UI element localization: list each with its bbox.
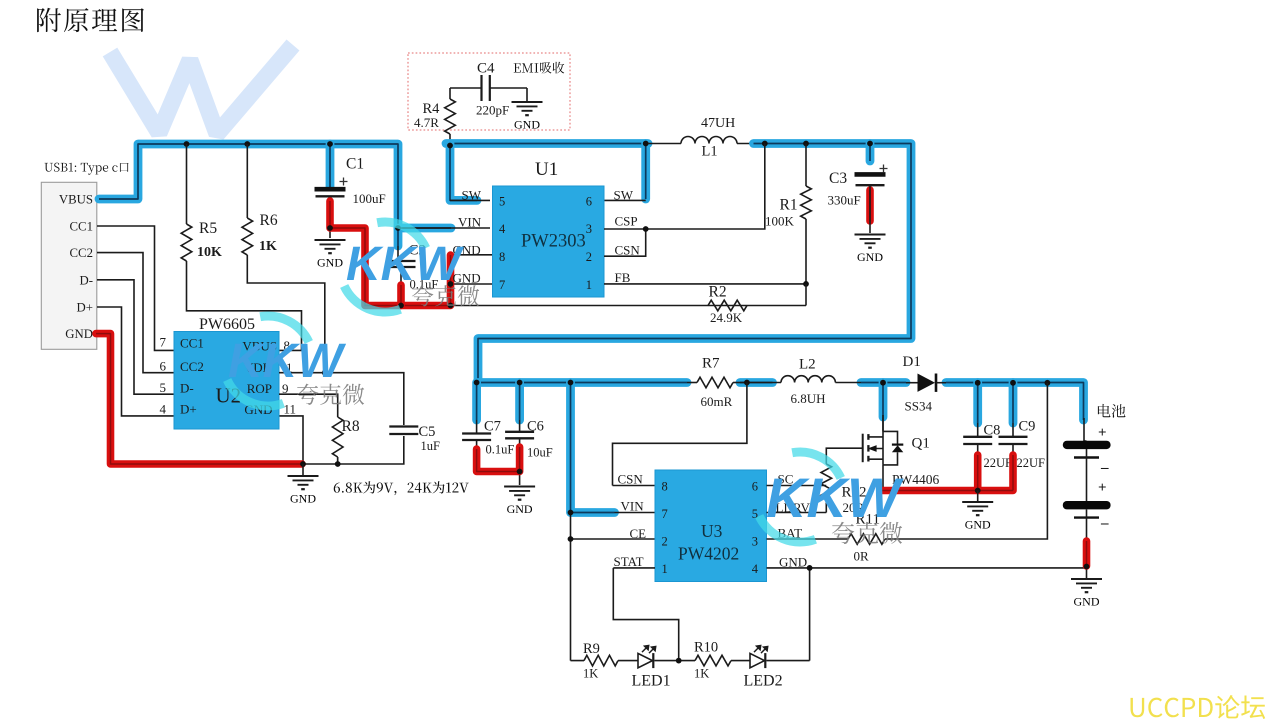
svg-text:0R: 0R	[854, 549, 870, 564]
wire C6 stub (blue)	[515, 383, 524, 421]
resistor R10	[695, 655, 731, 666]
junction dot FB	[803, 281, 809, 287]
svg-text:C7: C7	[484, 419, 501, 435]
watermark 夸克微 B	[297, 384, 364, 405]
junction dots U2 gnd rail	[300, 461, 306, 467]
svg-text:C5: C5	[419, 424, 436, 440]
EMI dashed box	[408, 53, 570, 130]
watermark crescent C	[759, 452, 841, 542]
capacitor C9	[999, 436, 1028, 438]
svg-text:60mR: 60mR	[701, 394, 733, 409]
wire SW pin6 drop (blue)	[641, 144, 650, 200]
svg-text:SW: SW	[462, 188, 482, 203]
wire ROP to R8	[279, 394, 338, 417]
chip U1 PW2303 box	[493, 186, 605, 297]
LED LED1	[638, 653, 653, 667]
capacitor C7	[462, 432, 491, 434]
svg-text:PW4202: PW4202	[678, 544, 739, 564]
svg-text:LED1: LED1	[632, 673, 671, 690]
svg-text:2: 2	[586, 250, 592, 264]
svg-text:22UF: 22UF	[984, 456, 1013, 470]
resistor R5	[186, 144, 188, 224]
wire U3 GND pin4 rail	[767, 540, 1087, 661]
svg-text:100K: 100K	[765, 214, 795, 229]
svg-text:CSN: CSN	[615, 243, 641, 258]
wire GND net under red (C1/C2/U1 grounds + R2 rail)	[330, 200, 806, 306]
svg-text:VIN: VIN	[621, 499, 645, 514]
capacitor C8	[963, 436, 992, 438]
watermark 夸克微 A	[412, 285, 479, 306]
svg-text:22UF: 22UF	[1017, 456, 1046, 470]
svg-text:R6: R6	[260, 212, 278, 229]
svg-text:7: 7	[662, 507, 668, 521]
svg-text:1K: 1K	[259, 239, 277, 254]
svg-text:C8: C8	[984, 423, 1001, 439]
svg-text:47UH: 47UH	[701, 116, 735, 131]
inductor L2	[747, 382, 781, 384]
wire SC stub	[767, 485, 827, 487]
wire SW pin5 drop (blue)	[450, 144, 477, 201]
svg-text:D-: D-	[180, 381, 194, 396]
svg-text:L2: L2	[799, 357, 816, 373]
svg-text:6.8UH: 6.8UH	[791, 391, 826, 406]
capacitor C2	[387, 260, 416, 262]
label 电池	[1098, 404, 1126, 418]
junction dots VOUT top	[762, 141, 768, 147]
svg-text:6: 6	[160, 359, 167, 374]
svg-text:GND: GND	[965, 517, 991, 531]
junction dot C8 gnd	[975, 488, 981, 494]
svg-text:C4: C4	[477, 61, 495, 77]
svg-text:D+: D+	[180, 402, 197, 417]
wire LED row	[571, 660, 810, 662]
junction dot C6 gnd	[517, 469, 523, 475]
watermark crescent A	[344, 222, 426, 312]
resistor R2	[805, 284, 807, 306]
red GND highlight at C1	[330, 201, 451, 306]
red highlight C7 C6 gnd	[477, 447, 520, 472]
svg-text:GND: GND	[857, 250, 883, 264]
wire VIN U3 path (blue)	[571, 383, 615, 513]
svg-text:STAT: STAT	[614, 554, 644, 569]
svg-text:C6: C6	[527, 419, 544, 435]
junction dots GND rail	[398, 303, 404, 309]
svg-text:1K: 1K	[583, 667, 598, 681]
svg-text:5: 5	[160, 380, 167, 395]
svg-text:R7: R7	[702, 356, 720, 372]
watermark giant W	[110, 45, 293, 134]
watermark 夸克微 C	[832, 522, 902, 544]
chip U3 PW4202 box	[655, 470, 767, 582]
junction dot R6-VDD	[322, 370, 328, 376]
wire Q1 gate	[826, 448, 862, 464]
svg-text:GND: GND	[514, 117, 540, 131]
svg-text:CC2: CC2	[70, 246, 93, 260]
junction dot STAT-LED	[676, 658, 682, 664]
resistor R6	[246, 144, 248, 218]
inductor L1	[648, 143, 681, 145]
capacitor C3	[855, 172, 886, 177]
watermark UCCPD论坛	[1131, 695, 1266, 719]
svg-text:C1: C1	[346, 156, 364, 173]
red highlight C3 gnd	[866, 190, 874, 221]
svg-text:VBUS: VBUS	[59, 192, 93, 206]
resistor R8	[332, 417, 343, 457]
svg-text:VIN: VIN	[458, 215, 482, 230]
svg-text:1uF: 1uF	[421, 439, 441, 453]
wire VIN into U1 pin 4	[398, 228, 490, 261]
svg-text:D+: D+	[77, 301, 93, 315]
svg-text:4.7R: 4.7R	[414, 115, 439, 130]
svg-text:11: 11	[284, 402, 297, 417]
junction dots SW bus	[447, 143, 453, 149]
connector USB1 Type-C box	[41, 182, 97, 349]
svg-text:2: 2	[662, 535, 668, 549]
wire LDRV stub	[767, 512, 827, 514]
transistor Q1 PW4406	[869, 417, 884, 465]
wire C9 stub (blue)	[1009, 383, 1018, 424]
LED LED2	[750, 653, 765, 667]
wire VIN stub + CE + STAT vertical	[571, 513, 656, 661]
wire SW pin stubs	[450, 199, 646, 201]
wire VBUS bus (blue)	[99, 144, 451, 228]
svg-text:6: 6	[586, 195, 592, 209]
capacitor C1	[315, 187, 346, 192]
junction dots bus2	[474, 380, 480, 386]
wire battery top lead	[1084, 418, 1087, 441]
svg-text:R9: R9	[583, 641, 600, 657]
svg-text:D-: D-	[79, 273, 93, 287]
ground battery	[1071, 578, 1102, 580]
svg-text:+: +	[1098, 425, 1107, 441]
junction dots VIN CE	[568, 510, 574, 516]
wire FB	[604, 283, 806, 285]
wire SW bus (blue)	[446, 139, 648, 148]
wire STAT path	[613, 568, 678, 661]
svg-text:7: 7	[160, 335, 167, 350]
red highlight USB GND rail	[96, 334, 302, 464]
ground under U2	[302, 464, 304, 475]
resistor R7	[687, 382, 697, 384]
wire C2 top lead (blue)	[394, 228, 403, 246]
svg-text:6: 6	[752, 480, 758, 494]
svg-text:C9: C9	[1019, 419, 1036, 435]
svg-text:D1: D1	[903, 354, 921, 370]
svg-text:KKW: KKW	[228, 335, 346, 388]
label EMI吸收	[514, 62, 565, 74]
junction dots VBUS bus	[184, 141, 190, 147]
svg-text:GND: GND	[65, 327, 93, 341]
junction dots GND rail	[807, 565, 813, 571]
wire C1 top lead (blue)	[326, 144, 335, 187]
ground under C1	[315, 239, 346, 241]
resistor R11	[848, 534, 885, 545]
svg-text:KKW: KKW	[346, 238, 464, 291]
wire VDD to C5	[279, 373, 404, 425]
wire C8 gnd	[977, 491, 979, 502]
resistor R1	[805, 144, 807, 187]
svg-text:R5: R5	[199, 220, 217, 237]
wire bus2 segment B (blue)	[740, 378, 773, 387]
svg-text:8: 8	[499, 250, 505, 264]
svg-text:100uF: 100uF	[353, 191, 386, 206]
svg-text:GND: GND	[317, 255, 343, 269]
svg-text:+: +	[1098, 480, 1107, 496]
svg-text:FB: FB	[615, 270, 631, 285]
wire bus2 segment A (blue)	[478, 378, 687, 387]
svg-text:1: 1	[662, 562, 668, 576]
svg-text:24.9K: 24.9K	[710, 310, 743, 325]
svg-text:CE: CE	[630, 526, 647, 541]
resistor R9	[584, 655, 618, 666]
red highlight Q1 source rail	[882, 455, 1014, 491]
svg-text:PW6605: PW6605	[199, 316, 255, 333]
diode D1	[906, 382, 918, 384]
wire C3 to gnd	[869, 186, 871, 233]
svg-text:10uF: 10uF	[527, 446, 553, 460]
svg-text:5: 5	[499, 195, 505, 209]
wire GND net under red (USB GND to U2 ground rail)	[94, 334, 404, 464]
junction dot C1 gnd	[327, 225, 333, 231]
title 附原理图	[37, 8, 144, 32]
svg-text:1: 1	[586, 278, 592, 292]
wire bus2 segment D (blue)	[946, 383, 1084, 421]
svg-text:4: 4	[499, 222, 506, 236]
svg-text:C3: C3	[829, 170, 847, 187]
wire bus2 segment C (blue)	[861, 378, 906, 387]
svg-text:PW2303: PW2303	[521, 232, 586, 252]
capacitor C5	[389, 425, 418, 427]
ground under C6	[504, 486, 535, 488]
svg-text:CC2: CC2	[180, 359, 204, 374]
ground C4	[526, 88, 528, 101]
wire USB CC1-D+ to U2	[97, 226, 174, 416]
capacitor C4	[450, 87, 527, 89]
red highlight battery minus	[1083, 541, 1091, 566]
svg-text:–: –	[1100, 516, 1109, 532]
svg-text:R2: R2	[709, 284, 727, 301]
label USB1: Type c口	[45, 163, 129, 175]
svg-text:0.1uF: 0.1uF	[486, 443, 515, 457]
svg-text:CC1: CC1	[70, 220, 93, 234]
wire CSN	[604, 229, 646, 256]
resistor R4	[449, 88, 451, 99]
svg-text:LED2: LED2	[744, 673, 783, 690]
svg-text:220pF: 220pF	[476, 103, 509, 118]
svg-text:U1: U1	[535, 159, 558, 180]
svg-text:SW: SW	[614, 188, 634, 203]
capacitor C6	[505, 431, 534, 433]
resistor R12	[821, 464, 832, 498]
battery 电池	[1063, 441, 1111, 449]
junction dot CSN-CSP	[643, 226, 649, 232]
wire C3 top lead (blue)	[866, 144, 875, 162]
svg-text:10K: 10K	[197, 245, 222, 260]
svg-text:–: –	[1100, 460, 1109, 476]
svg-text:R8: R8	[342, 418, 360, 435]
svg-text:CC1: CC1	[180, 336, 204, 351]
wire CSN U3	[613, 383, 747, 486]
wire CSP	[604, 144, 765, 230]
ground under C3	[855, 234, 886, 236]
svg-text:1K: 1K	[694, 667, 709, 681]
svg-text:CSN: CSN	[618, 472, 644, 487]
watermark crescent B	[227, 316, 309, 406]
svg-text:R10: R10	[694, 640, 718, 656]
wire Q1 drain stub (blue)	[879, 383, 888, 418]
note 6.8K为9V，24K为12V	[334, 481, 469, 495]
svg-text:GND: GND	[1074, 594, 1100, 608]
svg-text:7: 7	[499, 278, 505, 292]
wire C7 stub (blue)	[472, 383, 481, 421]
svg-text:KKW: KKW	[766, 466, 904, 529]
svg-text:L1: L1	[702, 144, 718, 160]
wire VOUT loop (blue)	[478, 144, 911, 383]
ground under C8	[962, 501, 993, 503]
wire Q1 drain	[882, 415, 884, 431]
svg-text:GND: GND	[507, 502, 533, 516]
wire BAT from bus2	[885, 383, 1047, 539]
svg-text:SS34: SS34	[905, 399, 933, 414]
wire C8 stub (blue)	[973, 383, 982, 424]
red GND highlight at C2	[397, 285, 405, 306]
svg-text:R1: R1	[780, 197, 798, 214]
svg-text:U3: U3	[701, 521, 723, 541]
svg-text:CSP: CSP	[615, 214, 638, 229]
svg-text:8: 8	[662, 480, 668, 494]
svg-text:330uF: 330uF	[828, 193, 861, 208]
svg-text:3: 3	[752, 535, 758, 549]
svg-text:Q1: Q1	[912, 436, 930, 452]
svg-text:GND: GND	[290, 491, 316, 505]
svg-text:3: 3	[586, 222, 592, 236]
svg-text:4: 4	[160, 402, 167, 417]
chip U2 PW6605 box	[174, 332, 279, 430]
svg-text:4: 4	[752, 562, 759, 576]
wire C7 C6 gnd elbow	[477, 438, 520, 485]
